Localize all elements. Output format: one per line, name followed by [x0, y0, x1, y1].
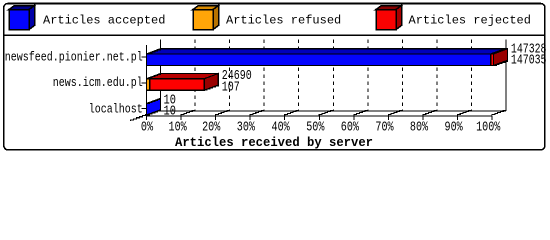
svg-text:news.icm.edu.pl: news.icm.edu.pl	[53, 75, 143, 90]
svg-text:60%: 60%	[341, 120, 360, 136]
svg-text:147035: 147035	[511, 53, 547, 69]
svg-text:newsfeed.pionier.net.pl: newsfeed.pionier.net.pl	[5, 50, 143, 65]
svg-text:40%: 40%	[272, 120, 291, 136]
svg-text:50%: 50%	[306, 120, 325, 136]
svg-text:70%: 70%	[375, 120, 394, 136]
svg-text:107: 107	[222, 79, 240, 95]
svg-text:Articles rejected: Articles rejected	[409, 13, 531, 27]
svg-text:Articles refused: Articles refused	[226, 13, 341, 27]
svg-text:10%: 10%	[169, 120, 188, 136]
svg-text:localhost: localhost	[89, 101, 143, 116]
svg-text:80%: 80%	[410, 120, 429, 136]
svg-text:20%: 20%	[202, 120, 221, 136]
svg-text:Articles accepted: Articles accepted	[43, 13, 165, 27]
svg-text:100%: 100%	[476, 120, 501, 136]
svg-text:30%: 30%	[237, 120, 256, 136]
svg-text:10: 10	[164, 103, 176, 119]
svg-text:Articles received by server: Articles received by server	[175, 136, 373, 150]
svg-text:0%: 0%	[141, 120, 154, 136]
svg-text:90%: 90%	[445, 120, 464, 136]
